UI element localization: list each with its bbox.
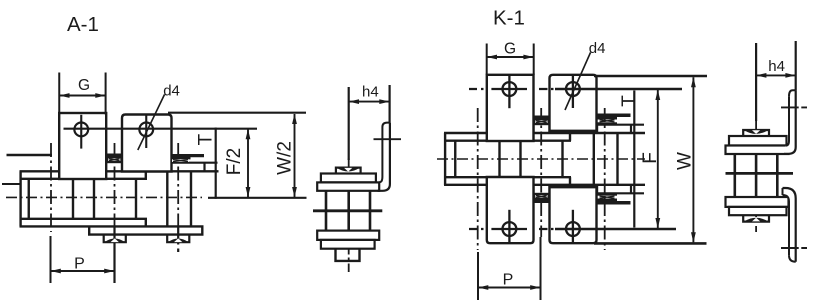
dimension h4 extension right xyxy=(389,85,391,123)
hole 1 xyxy=(74,122,88,136)
hole 1 vertical centerline xyxy=(80,115,82,149)
K-1 hole 1 top xyxy=(503,82,517,96)
K-1 end view pin bottom mark xyxy=(743,215,769,221)
pin 3 lower solid line xyxy=(177,227,179,252)
bent tab mark below pin 2 xyxy=(104,235,126,242)
A-1 strip hole tick xyxy=(374,138,402,140)
svg-text:P: P xyxy=(74,256,85,273)
svg-text:h4: h4 xyxy=(362,83,379,100)
dimension P extension lines xyxy=(50,236,52,283)
K-1 top extension line xyxy=(594,75,707,78)
K-1 bottom holes centerline segments xyxy=(491,228,527,230)
K-1 dimension G extension lines xyxy=(487,44,534,75)
dimension G extension lines xyxy=(59,73,105,115)
K-1 end view bar B xyxy=(726,146,789,155)
A-1 end view outer plate bar A xyxy=(321,174,376,183)
pin 3 centerline xyxy=(177,143,179,227)
K-1 end view bar A xyxy=(729,136,787,146)
K-1 bottom strip bottom cap xyxy=(789,255,796,261)
attachment plate 1 xyxy=(59,113,106,179)
K-1 blob edge verticals at pin 2 xyxy=(534,125,550,193)
svg-text:d4: d4 xyxy=(589,40,606,57)
K-1 attachment plate 1 top xyxy=(487,75,534,141)
K-1 top strip top cap xyxy=(789,90,796,96)
pin 2 centerline xyxy=(114,143,116,227)
svg-text:P: P xyxy=(503,272,514,289)
K-1 link B bar caps xyxy=(630,125,632,194)
K-1 chain top bar line xyxy=(444,132,645,134)
K-1 link B bar lines L2 top and bottom xyxy=(597,125,644,194)
chain left end cap xyxy=(19,171,21,226)
attachment tab edge view at pin 2 xyxy=(107,154,123,164)
hole 2 xyxy=(139,122,153,136)
K-1 dimension W line xyxy=(692,77,694,242)
K-1 tab edge view at pin 2 top xyxy=(534,116,550,126)
A-1 end view vertical centerline solid part xyxy=(348,87,350,160)
pin 1 centerline xyxy=(50,143,52,232)
K-1 end view pin axis line xyxy=(726,172,794,175)
d4 leader line xyxy=(138,95,165,151)
K-1 hole 2 bottom xyxy=(566,222,580,236)
A-1 end view pin center solid xyxy=(347,191,350,231)
attachment plate 2 xyxy=(122,115,172,172)
svg-text:F: F xyxy=(640,152,661,164)
svg-text:W: W xyxy=(675,152,696,170)
holes horizontal centerline extended xyxy=(64,128,258,130)
plate top edge extension line xyxy=(168,112,306,114)
K-1 chain top bar bottom edge xyxy=(444,139,571,141)
bent tab mark below pin 3 xyxy=(167,235,189,242)
K-1 roller at pin 3 xyxy=(594,134,618,185)
K-1 chain bottom bar line xyxy=(444,184,645,186)
roller at pin 3 xyxy=(167,172,191,226)
K-1 bushing verticals link 1 xyxy=(455,141,499,178)
bushing verticals link 2 xyxy=(94,179,136,219)
K-1 attachment plate 1 bottom xyxy=(487,177,534,243)
K-1 bottom strip inner edge xyxy=(783,195,790,255)
K-1 pin 2 centerline xyxy=(540,108,542,237)
K-1 dimension P extension lines xyxy=(478,237,541,300)
bushing verticals link 1 xyxy=(29,179,73,219)
K-1 tab edge view at pin 3 bottom xyxy=(597,193,631,205)
A-1 end view pin bottom box xyxy=(336,249,360,261)
K-1 pin 3 centerline xyxy=(604,108,606,250)
dimension P arrow line xyxy=(51,270,115,272)
K-1 top strip outer edge xyxy=(784,90,796,154)
A-1 end view roller verticals xyxy=(326,191,370,231)
svg-text:K-1: K-1 xyxy=(493,7,525,30)
chain top bar line L1 xyxy=(20,170,219,172)
K-1 bottom strip tip cap xyxy=(782,188,784,195)
K-1 bushing verticals link 2 xyxy=(521,141,563,178)
K-1 end view bar D xyxy=(729,207,787,215)
dimension h4 arrow line xyxy=(349,101,390,103)
bottom bars shared edge xyxy=(20,225,204,227)
T extension vertical xyxy=(215,128,217,199)
K-1 end view bar C xyxy=(726,197,789,207)
svg-text:T: T xyxy=(619,95,640,107)
K-1 end view roller verticals xyxy=(735,154,778,197)
A-1 strip top cap xyxy=(382,123,390,127)
K-1 bottom strip white fill xyxy=(783,188,796,262)
K-1 dimension h4 arrow line xyxy=(756,74,796,76)
left break stub line xyxy=(7,154,53,156)
K-1 top strip hole tick xyxy=(781,106,807,108)
dimension W/2 line xyxy=(294,114,296,197)
K-1 hole 1 bottom xyxy=(503,222,517,236)
K-1 attachment plate 2 bottom xyxy=(550,187,597,243)
K-1 link B box verticals xyxy=(596,125,598,194)
svg-text:A-1: A-1 xyxy=(67,13,99,36)
link B top bar line L2 xyxy=(171,162,218,164)
pin 2 lower solid line xyxy=(113,227,115,283)
link B top box verticals xyxy=(170,163,172,172)
K-1 d4 leader line xyxy=(565,53,591,111)
K-1 chain left end cap xyxy=(444,133,446,185)
K-1 top strip white fill xyxy=(784,90,796,154)
K-1 pin 1 centerline xyxy=(477,108,479,250)
K-1 chain centerline xyxy=(437,158,645,160)
K-1 end view pin center solid xyxy=(755,154,758,197)
K-1 top holes centerline segments xyxy=(491,88,527,90)
K-1 hole 2 top xyxy=(566,82,580,96)
K-1 T extension vertical xyxy=(633,91,635,228)
K-1 top strip inner edge xyxy=(786,96,789,145)
K-1 attachment plate 2 top xyxy=(550,75,597,131)
bottom bar link pair A top edge xyxy=(20,218,148,220)
K-1 chain bottom bar top edge xyxy=(444,176,571,178)
attachment tab edge view at pin 3 xyxy=(171,154,205,162)
K-1 tab edge view at pin 3 top xyxy=(597,114,631,126)
A-1 end view plate bar C xyxy=(317,231,379,240)
dimension F/2 line xyxy=(247,129,249,197)
K-1 end view vertical centerline solid part xyxy=(755,43,757,121)
chain top bar right cap xyxy=(145,171,147,226)
svg-text:G: G xyxy=(504,41,516,58)
A-1 end view plate bar B xyxy=(317,182,379,190)
svg-text:W/2: W/2 xyxy=(275,141,296,175)
A-1 bent attachment strip inner edge xyxy=(379,127,382,182)
svg-text:G: G xyxy=(78,77,90,94)
K-1 dimension P arrow line xyxy=(478,287,541,289)
K-1 dimension G arrow line xyxy=(487,56,534,58)
K-1 bottom strip hole tick xyxy=(781,247,807,249)
K-1 dimension h4 extension right xyxy=(795,41,797,90)
hole 2 vertical centerline xyxy=(145,115,147,148)
K-1 end view pin top mark xyxy=(743,130,769,136)
bottom bar link pair B bottom edge xyxy=(88,233,204,235)
K-1 bottom extension line xyxy=(594,242,707,245)
A-1 end view pin top mark xyxy=(336,168,361,174)
A-1 bent attachment strip outer edge xyxy=(378,123,390,191)
K-1 dimension F line xyxy=(657,90,659,228)
A-1 end view vertical centerline dash-dot xyxy=(348,159,350,273)
bottom bar B end caps xyxy=(89,226,202,234)
K-1 bottom strip outer edge xyxy=(783,188,796,262)
svg-text:T: T xyxy=(196,133,217,145)
K-1 end view vertical centerline dash-dot xyxy=(755,121,757,232)
dimension G arrow line xyxy=(59,95,105,97)
svg-text:F/2: F/2 xyxy=(224,148,245,175)
chain top bar bottom edge xyxy=(21,178,147,180)
svg-text:d4: d4 xyxy=(163,82,180,99)
A-1 end view pin axis line xyxy=(313,209,382,212)
link B top bar right cap xyxy=(203,163,205,172)
K-1 chain bar right caps xyxy=(569,133,571,185)
A-1 end view plate bar D xyxy=(321,240,375,249)
svg-text:h4: h4 xyxy=(768,58,785,75)
K-1 tab edge view at pin 2 bottom xyxy=(534,193,550,203)
far-side plate stub xyxy=(2,183,21,185)
chain centerline (A-1 side view) xyxy=(6,196,202,198)
